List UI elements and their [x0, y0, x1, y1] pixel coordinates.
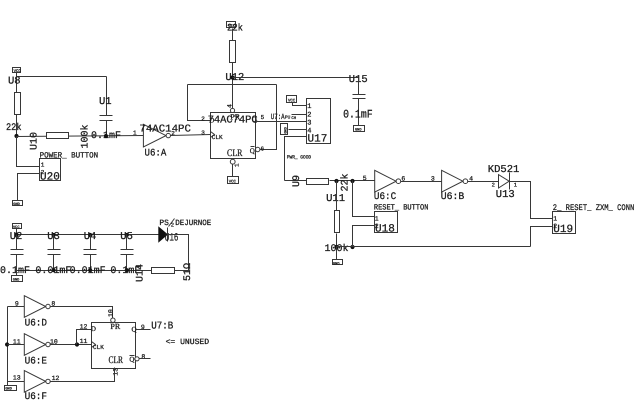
wire caps top bus	[17, 234, 160, 236]
svg-text:10: 10	[107, 309, 114, 317]
svg-text:U6:B: U6:B	[441, 192, 465, 203]
capacitor U15 0.1mF	[353, 78, 366, 126]
svg-text:1: 1	[553, 216, 557, 223]
svg-text:5: 5	[261, 114, 265, 121]
svg-text:9: 9	[15, 301, 19, 308]
svg-text:13: 13	[13, 375, 21, 382]
capacitor U3 0.01mF	[48, 235, 61, 271]
wire VCC to bus	[16, 229, 18, 235]
svg-text:D: D	[91, 325, 96, 333]
ground (below POWER_BUTTON)	[13, 201, 23, 207]
svg-text:74AC14PC: 74AC14PC	[139, 123, 191, 135]
wire GND stem below U11	[336, 247, 338, 260]
wire bottom row to U19	[337, 246, 531, 248]
svg-text:U20: U20	[40, 171, 60, 183]
svg-text:CLK: CLK	[212, 134, 223, 141]
svg-text:PWR_ GOOD: PWR_ GOOD	[287, 155, 311, 161]
wire U7:B CLR to U6:F output	[51, 368, 115, 382]
svg-text:CH: CH	[291, 116, 296, 121]
svg-text:GND: GND	[284, 127, 289, 133]
svg-text:22k: 22k	[6, 122, 22, 134]
node junction U18 pin1 branch	[350, 179, 354, 183]
U7:A PR bubble	[230, 108, 234, 112]
svg-text:GND: GND	[355, 128, 361, 133]
svg-text:13: 13	[113, 368, 120, 376]
svg-text:U7:A: U7:A	[271, 113, 285, 122]
wire U6:C to U6:B	[401, 181, 442, 183]
diode U13	[499, 173, 510, 190]
node junction U12/U15	[230, 75, 234, 79]
wire main row to U6:A input	[17, 136, 144, 137]
svg-text:3: 3	[201, 130, 205, 137]
svg-text:1: 1	[307, 103, 311, 111]
svg-text:U6:D: U6:D	[25, 319, 47, 330]
wire GND stem below U2	[16, 271, 18, 276]
resistor U8 22k (vertical)	[15, 93, 21, 115]
svg-text:VCC: VCC	[229, 180, 237, 185]
wire left input bus	[7, 307, 9, 386]
flip-flop U7:A 74AC74PC	[209, 112, 260, 159]
ground (below caps bus)	[12, 276, 23, 283]
svg-text:Q: Q	[129, 356, 134, 364]
wire CLR to VCC	[232, 165, 234, 177]
wire GND to U17 pin4	[289, 129, 307, 131]
wire bus to U6:F input	[8, 381, 25, 383]
wire feedback loop right	[260, 85, 277, 150]
svg-text:U7:B: U7:B	[151, 321, 173, 333]
svg-text:U10: U10	[30, 132, 41, 150]
wire VCC to resistor U12	[232, 29, 234, 41]
resistor U9 22k (horizontal)	[307, 179, 329, 185]
svg-text:U6:F: U6:F	[25, 392, 47, 403]
svg-text:U6:C: U6:C	[374, 192, 396, 203]
svg-text:U6:E: U6:E	[25, 357, 47, 368]
node junction U6:E input	[5, 342, 9, 346]
svg-text:5: 5	[363, 175, 367, 182]
svg-text:VCC: VCC	[288, 99, 296, 104]
wire U18 pin1 branch	[353, 181, 375, 217]
wire U6:A output to U7:A CLK	[171, 135, 211, 136]
svg-text:PU: PU	[285, 116, 291, 121]
inverter U6:B	[442, 170, 468, 192]
wire bus to U6:D input	[8, 306, 25, 308]
ground (bottom bus)	[5, 386, 17, 392]
node junctions on top bus	[14, 233, 18, 237]
svg-text:12: 12	[80, 323, 88, 330]
wire VCC to U17 pin1	[293, 103, 307, 106]
svg-text:PR: PR	[110, 322, 120, 331]
wire U6:E output to U7:B CLK	[51, 344, 92, 346]
wire node to POWER_BUTTON pin1	[17, 137, 40, 167]
wire U12 junction to U15	[233, 77, 359, 79]
capacitor U4 0.01mF	[84, 235, 97, 271]
node junctions on bottom bus	[52, 268, 56, 272]
svg-text:KD521: KD521	[488, 164, 520, 176]
wire caps bottom bus	[17, 270, 152, 272]
svg-text:2: 2	[171, 130, 175, 137]
svg-text:PS: PS	[159, 219, 169, 228]
flip-flop U7:B	[91, 322, 139, 368]
svg-text:100k: 100k	[80, 124, 92, 148]
svg-text:22k: 22k	[227, 22, 243, 34]
wire feedback loop top (Q-bar to D)	[188, 84, 277, 86]
diode U16 PS_DEJURNOE (filled)	[159, 227, 168, 241]
wire bottom row to U19 pin2	[531, 227, 553, 247]
wire U11 top	[336, 181, 338, 211]
svg-text:U8: U8	[8, 76, 21, 88]
svg-text:0.1mF: 0.1mF	[343, 108, 373, 121]
svg-text:<= UNUSED: <= UNUSED	[166, 338, 210, 347]
svg-text:11: 11	[80, 338, 88, 345]
svg-text:CLR: CLR	[227, 148, 243, 159]
svg-text:2: 2	[201, 115, 205, 122]
svg-text:1: 1	[375, 215, 379, 222]
svg-text:1: 1	[234, 163, 241, 167]
svg-text:CLR: CLR	[109, 355, 124, 366]
wire resistor U8 bottom to node	[16, 115, 18, 137]
resistor U12 22k (vertical)	[230, 41, 236, 63]
svg-text:U14: U14	[136, 264, 147, 282]
VCC symbol (caps bus)	[13, 224, 22, 231]
wire U17 pin5 to PWR_GOOD net	[285, 137, 307, 181]
svg-text:3: 3	[431, 175, 435, 182]
wire U7:B Q-bar stub	[140, 358, 151, 360]
op-amp/inverter U6:A	[143, 124, 170, 147]
connector U19	[553, 212, 576, 234]
wire corner to U9	[285, 180, 307, 182]
wire U6:B to diode U13	[468, 181, 499, 183]
svg-text:CLK: CLK	[93, 344, 104, 351]
svg-text:2: 2	[171, 221, 174, 228]
svg-text:8: 8	[141, 354, 145, 361]
inverter U6:C	[375, 170, 401, 192]
svg-text:U19: U19	[553, 224, 573, 236]
svg-text:U1: U1	[99, 96, 112, 108]
svg-text:12: 12	[52, 375, 60, 382]
connector U17	[307, 99, 331, 144]
wire U13 to U19 pin1	[510, 182, 553, 219]
capacitor U2 0.1mF	[11, 235, 24, 271]
resistor U10 100k (horizontal)	[47, 133, 69, 139]
svg-text:1: 1	[41, 161, 45, 168]
wire U16 cathode to corner	[168, 235, 189, 271]
svg-text:U18: U18	[375, 224, 395, 236]
resistor U11 100k (vertical)	[335, 211, 340, 233]
wire U7:A Q to U17 pin3	[256, 121, 307, 123]
node junction under U1	[104, 134, 108, 138]
wire bus to U6:E input	[8, 344, 25, 346]
inverter U6:D	[24, 296, 50, 318]
wire branch to U7:B D	[77, 330, 92, 345]
wire feedback loop left	[188, 85, 211, 121]
ground (below U11)	[333, 260, 343, 267]
U7:B PR bubble	[111, 318, 115, 322]
svg-text:0.01mF: 0.01mF	[35, 266, 71, 277]
svg-text:DEJURNOE: DEJURNOE	[175, 219, 211, 228]
svg-text:GND: GND	[333, 261, 339, 266]
wire top horizontal to U1	[17, 76, 107, 78]
node junction (22k / 100k / POWER_BUTTON)	[14, 134, 18, 138]
ground (below U15)	[354, 126, 365, 133]
U7:A CLR bubble	[230, 159, 235, 164]
node junction U18 pin2 branch	[350, 245, 354, 249]
inverter U6:E	[24, 334, 50, 356]
net label PS_DEJURNOE	[159, 219, 211, 229]
capacitor U5 0.1mF	[121, 235, 134, 271]
ground (rotated, U17 pin4)	[281, 124, 289, 135]
svg-text:0.01mF: 0.01mF	[70, 266, 106, 277]
node junction U7:B D branch	[75, 342, 79, 346]
VCC symbol (top 22k)	[227, 22, 236, 29]
svg-text:VCC: VCC	[14, 69, 22, 74]
inverter U6:F	[24, 371, 50, 393]
capacitor U1 0.1mF	[100, 77, 113, 137]
wire U9 to U6:C input	[330, 180, 375, 182]
node junction U11 bottom	[334, 245, 338, 249]
node junction U11 top	[334, 179, 338, 183]
svg-text:11: 11	[13, 339, 21, 346]
svg-text:4: 4	[227, 104, 234, 108]
switch U18 RESET_BUTTON	[375, 212, 398, 233]
wire U12 to U7:A PR pin	[232, 63, 234, 109]
wire U7:B Q stub	[136, 329, 151, 331]
resistor U14 51R (horizontal)	[152, 268, 175, 274]
wire VCC to resistor U8 and to cap U1 top	[16, 73, 18, 93]
VCC symbol (top-left)	[13, 68, 22, 74]
svg-text:GND: GND	[5, 387, 11, 392]
svg-text:1: 1	[133, 130, 137, 137]
svg-text:6: 6	[261, 145, 265, 152]
svg-text:U13: U13	[496, 189, 515, 201]
switch U20 POWER_BUTTON	[40, 159, 61, 181]
wire U17 pin2 stub	[292, 114, 307, 116]
svg-text:2: 2	[307, 111, 311, 119]
svg-text:51Ω: 51Ω	[183, 263, 194, 281]
svg-text:Q: Q	[250, 147, 255, 155]
VCC symbol (below U7:A CLR)	[228, 177, 239, 185]
VCC symbol (U17 pin1)	[287, 96, 297, 104]
wire U6:D output to U7:B PR	[51, 307, 113, 319]
svg-text:GND: GND	[13, 277, 19, 282]
svg-text:3: 3	[307, 119, 311, 127]
svg-text:22k: 22k	[339, 173, 351, 191]
svg-text:U6:A: U6:A	[145, 148, 167, 159]
wire U11 bottom	[336, 234, 338, 247]
svg-text:U9: U9	[292, 175, 303, 187]
svg-text:GND: GND	[13, 202, 19, 207]
svg-text:74AC74PC: 74AC74PC	[208, 114, 258, 126]
svg-text:U17: U17	[308, 133, 328, 145]
svg-text:2: 2	[492, 181, 495, 188]
wire U18 pin2 branch	[353, 226, 375, 247]
wire POWER_BUTTON pin2 to GND	[18, 174, 40, 201]
svg-text:U11: U11	[326, 193, 345, 205]
